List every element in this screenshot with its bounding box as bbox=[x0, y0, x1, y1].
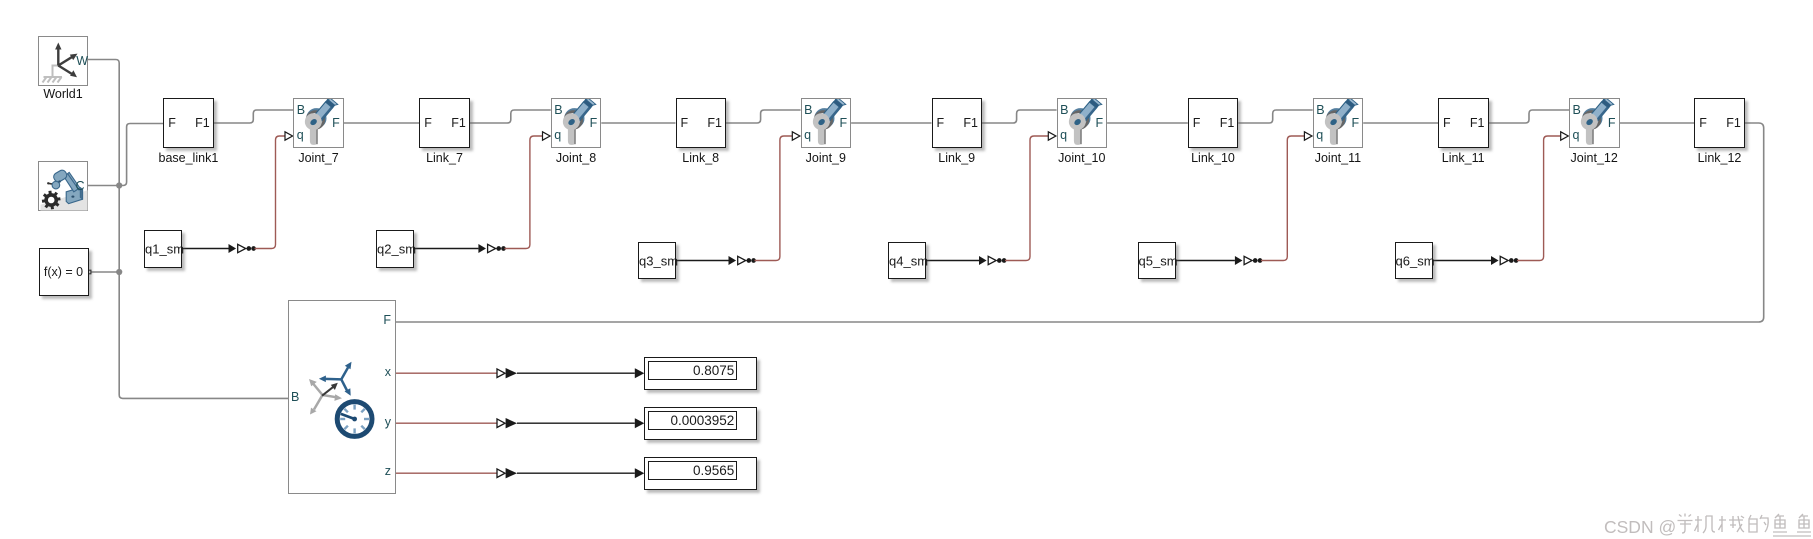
wire base_link1 F1 to Joint_7 B bbox=[214, 110, 294, 123]
block q2_sm (source subsystem) bbox=[376, 230, 414, 268]
signal wire to display (z) bbox=[517, 472, 635, 474]
converter output arrowhead (y) bbox=[506, 418, 517, 428]
converter dots for q6_sm bbox=[1509, 258, 1514, 263]
converter output arrowhead (x) bbox=[506, 368, 517, 378]
q port input arrow bbox=[543, 132, 551, 140]
block Transform Sensor bbox=[288, 300, 396, 494]
Simulink-PS converter triangle for q3_sm bbox=[738, 256, 746, 264]
physical signal wire sensor z output bbox=[396, 472, 497, 474]
signal wire to display (y) bbox=[517, 422, 635, 424]
arrowhead into display (z) bbox=[635, 468, 645, 478]
wire q4_sm output signal bbox=[926, 260, 979, 262]
physical signal wire sensor x output bbox=[396, 372, 497, 374]
wire Joint_9 F to Link_9 F bbox=[851, 122, 931, 124]
Simulink-PS converter triangle for q2_sm bbox=[488, 244, 496, 252]
Simulink-PS converter triangle for q4_sm bbox=[988, 256, 996, 264]
block Joint_8 (revolute joint) bbox=[551, 98, 602, 148]
arrowhead into converter for q1_sm bbox=[229, 244, 237, 253]
block World1 (world frame) bbox=[38, 36, 88, 86]
block Link_11 (subsystem) bbox=[1438, 98, 1489, 148]
arrowhead into converter for q5_sm bbox=[1235, 256, 1243, 265]
block q5_sm (source subsystem) bbox=[1138, 242, 1176, 279]
physical signal wire q2_sm to joint q port bbox=[504, 136, 542, 249]
wire Link_12 F1 to Transform Sensor F port bbox=[396, 123, 1764, 322]
block Joint_9 (revolute joint) bbox=[801, 98, 852, 148]
block base_link1 (subsystem) bbox=[163, 98, 214, 148]
block Link_8 (subsystem) bbox=[676, 98, 727, 148]
wire Joint_12 F to Link_12 F bbox=[1620, 122, 1695, 124]
wire q5_sm output signal bbox=[1176, 260, 1235, 262]
converter output arrowhead (z) bbox=[506, 468, 517, 478]
converter dots for q1_sm bbox=[246, 246, 251, 251]
block Link_7 (subsystem) bbox=[419, 98, 470, 148]
PS-Simulink converter triangle (z) bbox=[497, 469, 505, 478]
wire Joint_8 F to Link_8 F bbox=[601, 122, 675, 124]
wire Solver f(x)=0 port to bus junction bbox=[89, 271, 119, 273]
signal wire to display (x) bbox=[517, 372, 635, 374]
arrowhead into converter for q6_sm bbox=[1491, 256, 1499, 265]
arrowhead into display (y) bbox=[635, 418, 645, 428]
wire World1 W port to Transform Sensor B port (main vertical bus) bbox=[88, 60, 288, 399]
wire Link_10 F1 to Joint_11 B bbox=[1238, 110, 1312, 123]
block Mechanism Configuration bbox=[38, 161, 88, 211]
wire Joint_11 F to Link_11 F bbox=[1363, 122, 1438, 124]
q port input arrow bbox=[285, 132, 293, 140]
wire q2_sm output signal bbox=[414, 248, 478, 250]
block Link_12 (subsystem) bbox=[1694, 98, 1745, 148]
block Joint_7 (revolute joint) bbox=[293, 98, 344, 148]
physical signal wire q6_sm to joint q port bbox=[1517, 136, 1561, 261]
PS-Simulink converter triangle (x) bbox=[497, 369, 505, 378]
block q4_sm (source subsystem) bbox=[888, 242, 926, 279]
arrowhead into converter for q2_sm bbox=[478, 244, 486, 253]
q port input arrow bbox=[792, 132, 800, 140]
wire q1_sm output signal bbox=[182, 248, 229, 250]
wire Link_7 F1 to Joint_8 B bbox=[470, 110, 551, 123]
physical signal wire q1_sm to joint q port bbox=[255, 136, 286, 249]
q port input arrow bbox=[1048, 132, 1056, 140]
block Link_10 (subsystem) bbox=[1188, 98, 1239, 148]
block Solver Configuration f(x)=0 bbox=[39, 248, 89, 296]
junction dot at solver branch bbox=[116, 269, 122, 275]
arrowhead into converter for q3_sm bbox=[729, 256, 737, 265]
block q1_sm (source subsystem) bbox=[144, 230, 182, 268]
block Link_9 (subsystem) bbox=[932, 98, 983, 148]
PS-Simulink converter triangle (y) bbox=[497, 419, 505, 428]
block q3_sm (source subsystem) bbox=[638, 242, 676, 279]
wire Joint_7 F to Link_7 F bbox=[344, 122, 420, 124]
watermark CSDN bbox=[1604, 512, 1813, 539]
converter dots for q2_sm bbox=[496, 246, 501, 251]
block q6_sm (source subsystem) bbox=[1395, 242, 1433, 279]
wire q6_sm output signal bbox=[1433, 260, 1492, 262]
block Display 0.9565 bbox=[644, 457, 756, 490]
Simulink-PS converter triangle for q6_sm bbox=[1500, 256, 1508, 264]
wire Link_11 F1 to Joint_12 B bbox=[1489, 110, 1570, 123]
physical signal wire q4_sm to joint q port bbox=[1005, 136, 1048, 261]
converter dots for q5_sm bbox=[1253, 258, 1258, 263]
wire Link_9 F1 to Joint_10 B bbox=[982, 110, 1057, 123]
q port input arrow bbox=[1304, 132, 1312, 140]
block Joint_12 (revolute joint) bbox=[1569, 98, 1620, 148]
physical signal wire q3_sm to joint q port bbox=[755, 136, 793, 261]
converter dots for q3_sm bbox=[746, 258, 751, 263]
arrowhead into display (x) bbox=[635, 368, 645, 378]
physical signal wire q5_sm to joint q port bbox=[1261, 136, 1305, 261]
block Joint_11 (revolute joint) bbox=[1313, 98, 1364, 148]
block Display 0.8075 bbox=[644, 357, 756, 390]
solver port square bbox=[87, 270, 91, 274]
junction dot at C port branch bbox=[116, 182, 122, 188]
Simulink-PS converter triangle for q5_sm bbox=[1244, 256, 1252, 264]
block Joint_10 (revolute joint) bbox=[1057, 98, 1108, 148]
wire q3_sm output signal bbox=[676, 260, 729, 262]
arrowhead into converter for q4_sm bbox=[979, 256, 987, 265]
Simulink-PS converter triangle for q1_sm bbox=[238, 244, 246, 252]
q port input arrow bbox=[1561, 132, 1569, 140]
wire Joint_10 F to Link_10 F bbox=[1107, 122, 1188, 124]
converter dots for q4_sm bbox=[997, 258, 1002, 263]
wire Mechanism Configuration C port to bus junction bbox=[88, 185, 119, 187]
wire base_link1 F port to bus junction bbox=[119, 124, 163, 186]
block Display 0.0003952 bbox=[644, 407, 756, 440]
physical signal wire sensor y output bbox=[396, 422, 497, 424]
wire Link_8 F1 to Joint_9 B bbox=[726, 110, 801, 123]
